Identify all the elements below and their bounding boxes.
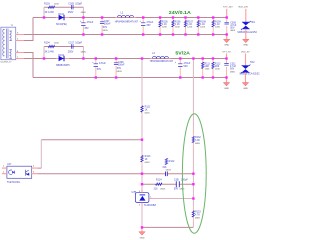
wire divider column x193.4 [192, 59, 194, 228]
svg-text:1K: 1K [145, 108, 148, 111]
svg-text:0805: 0805 [117, 71, 123, 73]
resistor R112 rail2 [212, 59, 221, 78]
svg-text:R122: R122 [169, 160, 175, 163]
svg-text:100pF: 100pF [75, 2, 82, 5]
junctions feedback node column [141, 139, 143, 229]
svg-text:3.3K: 3.3K [195, 139, 200, 142]
resistor R109 bleeder5 [212, 18, 221, 35]
svg-text:U17: U17 [7, 163, 12, 166]
svg-text:35V: 35V [84, 27, 89, 30]
svg-text:250V: 250V [68, 11, 74, 14]
resistor R133 divider lower [192, 207, 201, 221]
optocoupler U17 [3, 163, 35, 184]
svg-text:GND: GND [224, 88, 229, 90]
junctions rail1 24V net [43, 16, 228, 18]
svg-text:50V: 50V [174, 187, 179, 190]
transformer T1 [1, 25, 19, 63]
svg-text:3K 1/4W: 3K 1/4W [45, 11, 55, 14]
svg-text:TD1: TD1 [250, 21, 255, 24]
resistor R106 bleeder2 [172, 18, 181, 35]
wire feedback column x142 [141, 59, 143, 193]
svg-text:1.1K: 1.1K [215, 23, 220, 26]
svg-text:SBR8U60P5: SBR8U60P5 [56, 64, 70, 67]
svg-text:1206: 1206 [200, 27, 206, 29]
ground arrow TVS1 [243, 39, 249, 43]
svg-text:SMBJ5.0CA-E3/52: SMBJ5.0CA-E3/52 [239, 73, 260, 76]
svg-text:1206: 1206 [54, 3, 60, 5]
wire bus2 return [33, 77, 227, 79]
svg-text:470uF: 470uF [87, 21, 94, 24]
capacitor C314 series [174, 179, 188, 191]
transformer pin stubs [16, 35, 24, 59]
resistor R108 bleeder4 [197, 18, 206, 35]
svg-text:3K 1/4W: 3K 1/4W [45, 51, 55, 54]
ground port TL431 [139, 227, 145, 239]
resistor R132 divider upper [192, 132, 201, 148]
svg-text:0603: 0603 [145, 162, 151, 164]
svg-text:1206: 1206 [215, 27, 221, 29]
svg-text:4.7K: 4.7K [195, 213, 200, 216]
svg-text:C3B: C3B [174, 179, 179, 182]
junctions bus2 return net [95, 76, 228, 78]
wire TL431 anode down [141, 206, 143, 228]
svg-text:D101: D101 [58, 13, 64, 16]
capacitor C311 output rail2 [224, 59, 236, 78]
resistor R124 series [154, 179, 166, 191]
capacitor C310 electrolytic rail2 post-filter [175, 59, 191, 78]
green highlight ellipse [182, 114, 206, 234]
wire bottom to divider [142, 226, 193, 228]
svg-text:100nF: 100nF [118, 63, 125, 66]
svg-text:R103: R103 [44, 2, 50, 5]
svg-text:R124: R124 [156, 179, 162, 182]
TL431 U7B [132, 190, 157, 208]
svg-text:1206: 1206 [205, 69, 211, 71]
diode D102 rail2 [56, 58, 70, 60]
capacitor C308 electrolytic rail2 [92, 59, 106, 78]
svg-text:0805: 0805 [195, 217, 201, 219]
svg-text:GND: GND [243, 88, 248, 90]
svg-text:1.1K: 1.1K [187, 23, 192, 26]
svg-text:D102: D102 [58, 54, 64, 57]
svg-text:C317: C317 [68, 42, 74, 45]
svg-text:HPW4040NR047UNT: HPW4040NR047UNT [150, 60, 174, 63]
svg-text:0603: 0603 [160, 188, 166, 190]
svg-text:5V/2A: 5V/2A [175, 50, 190, 55]
resistor R123 [141, 153, 151, 165]
wire rail1 24V [33, 17, 227, 19]
resistor R104 snubber2 [48, 45, 54, 47]
svg-text:1206: 1206 [162, 27, 168, 29]
svg-text:HPW4040NR047UNT: HPW4040NR047UNT [115, 21, 139, 24]
svg-text:50V: 50V [184, 65, 189, 68]
wire opto emitter to divider node [37, 173, 193, 175]
capacitor C307 ceramic rail1 [100, 18, 111, 35]
svg-text:316: 316 [162, 166, 167, 169]
svg-text:1206: 1206 [187, 27, 193, 29]
svg-text:0805: 0805 [81, 12, 87, 14]
net label VDD_5V stub [245, 54, 247, 66]
inductor L2 rail1 [115, 11, 139, 23]
junctions bus1 return net [82, 33, 228, 35]
svg-text:35V: 35V [146, 24, 151, 27]
wire rail2 5V [24, 58, 227, 60]
capacitor C313 series in wire y173.8 [162, 172, 171, 177]
wire snubber2 branch [44, 46, 83, 48]
capacitor C304 electrolytic rail1 post-filter [140, 18, 154, 35]
capacitor C303 electrolytic rail1 [80, 18, 94, 35]
svg-text:TD2: TD2 [250, 61, 255, 64]
svg-text:GND: GND [224, 45, 229, 47]
svg-text:0805: 0805 [81, 52, 87, 54]
ground arrow TVS2 [242, 83, 248, 87]
svg-text:TL431IDBZ: TL431IDBZ [144, 204, 157, 207]
svg-text:1.1K: 1.1K [162, 23, 167, 26]
svg-text:250V: 250V [68, 51, 74, 54]
svg-text:50V: 50V [97, 68, 102, 71]
svg-text:U7B: U7B [132, 191, 137, 194]
TVS diode TD1 [237, 21, 257, 34]
svg-text:0805: 0805 [230, 30, 236, 32]
svg-text:SMBJ30CA-E3/52: SMBJ30CA-E3/52 [237, 31, 257, 34]
wire TVS1 to gnd [245, 29, 247, 40]
svg-text:50V: 50V [230, 68, 235, 71]
inductor L3 rail2 [150, 52, 174, 63]
svg-text:100nF: 100nF [104, 22, 111, 25]
resistor R105 bleeder1 [159, 18, 168, 35]
svg-text:2R2: 2R2 [205, 65, 210, 68]
optocoupler pin stubs [2, 168, 37, 174]
svg-text:50V: 50V [117, 67, 122, 70]
svg-text:R104: R104 [44, 42, 50, 45]
wire pin3 to bus2 riser [24, 53, 33, 78]
svg-text:SK34(HE): SK34(HE) [56, 23, 67, 26]
wire bus1 return [24, 34, 227, 36]
capacitor C305 snubber1 [72, 5, 74, 9]
resistor R107 bleeder3 [184, 18, 193, 35]
svg-text:1206: 1206 [215, 69, 221, 71]
svg-text:GND: GND [243, 45, 248, 47]
svg-text:1.1K: 1.1K [175, 23, 180, 26]
resistor R111 rail2 [202, 59, 211, 78]
svg-text:KTY_24V: KTY_24V [223, 7, 233, 9]
net label VDD_24V stub [245, 9, 247, 22]
svg-text:2R2: 2R2 [215, 65, 220, 68]
wire opto collector to feedback node [37, 140, 142, 168]
capacitor C317 snubber2 [72, 44, 74, 48]
svg-text:C305: C305 [68, 2, 74, 5]
svg-text:316: 316 [154, 187, 159, 190]
svg-text:24V/0.1A: 24V/0.1A [169, 10, 191, 15]
wire TL431 ref to divider [152, 198, 194, 200]
net label KTY_5V stub [226, 54, 228, 59]
net label KTY_24V stub [226, 9, 228, 18]
ground arrow bus1 end [226, 35, 228, 40]
svg-text:1206: 1206 [54, 43, 60, 45]
resistor R122 floating [162, 158, 175, 171]
svg-text:VDD_5V: VDD_5V [241, 51, 250, 53]
wire TVS2 to gnd [245, 72, 247, 82]
svg-text:100pF: 100pF [75, 42, 82, 45]
capacitor C306 output rail1 [225, 18, 237, 35]
wire pin2 to rail1 riser [24, 18, 33, 41]
svg-text:0603: 0603 [145, 112, 151, 114]
svg-text:KTY_5V: KTY_5V [223, 51, 232, 53]
resistor R103 snubber1 [48, 6, 54, 8]
svg-text:50V: 50V [103, 26, 108, 29]
diode D101 rail1 [56, 17, 70, 19]
svg-text:1K: 1K [145, 158, 148, 161]
svg-text:1206: 1206 [175, 27, 181, 29]
ground arrow bus2 end [226, 78, 228, 83]
svg-text:UL2817-17: UL2817-17 [1, 61, 13, 63]
junctions rail2 5V net [43, 57, 228, 59]
capacitor C309 ceramic rail2 [114, 59, 125, 78]
wire snubber1 branch [44, 6, 83, 8]
resistor R121 [141, 103, 151, 115]
junctions divider node column [192, 173, 194, 200]
svg-text:470uF: 470uF [99, 62, 106, 65]
svg-text:0805: 0805 [103, 30, 109, 32]
wire comp row y184 [142, 183, 193, 185]
svg-text:GND: GND [140, 238, 145, 240]
svg-text:0805: 0805 [230, 71, 236, 73]
svg-text:VDD_24V: VDD_24V [238, 7, 248, 9]
TVS diode TD2 [239, 61, 260, 75]
svg-text:TCET1103G: TCET1103G [7, 181, 20, 184]
svg-text:0603: 0603 [166, 170, 172, 172]
svg-text:50V: 50V [230, 27, 235, 30]
svg-text:1.1K: 1.1K [200, 23, 205, 26]
svg-text:0805: 0805 [195, 143, 201, 145]
